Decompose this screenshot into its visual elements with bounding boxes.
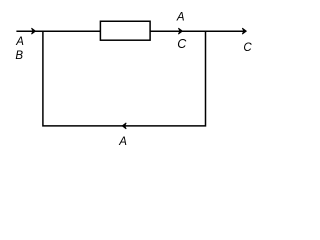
block U1 (process box) — [100, 21, 150, 40]
arrowhead on output wire (right-pointing) — [178, 28, 182, 34]
arrowhead on feedback wire (left-pointing) — [122, 123, 126, 129]
svg-text:A: A — [15, 36, 24, 48]
svg-text:C: C — [177, 37, 187, 51]
svg-text:A: A — [118, 136, 127, 148]
wire input segment (left of block) — [16, 30, 100, 32]
arrowhead on input wire (right-pointing) — [32, 28, 36, 34]
wire feedback loop: left vertical, bottom segment, right vertical — [43, 31, 206, 126]
arrowhead at right wire end (right-pointing) — [242, 28, 246, 34]
svg-text:C: C — [243, 42, 252, 54]
svg-text:B: B — [15, 50, 23, 62]
svg-text:A: A — [176, 11, 185, 23]
wire output segment (right of block) — [150, 30, 244, 32]
